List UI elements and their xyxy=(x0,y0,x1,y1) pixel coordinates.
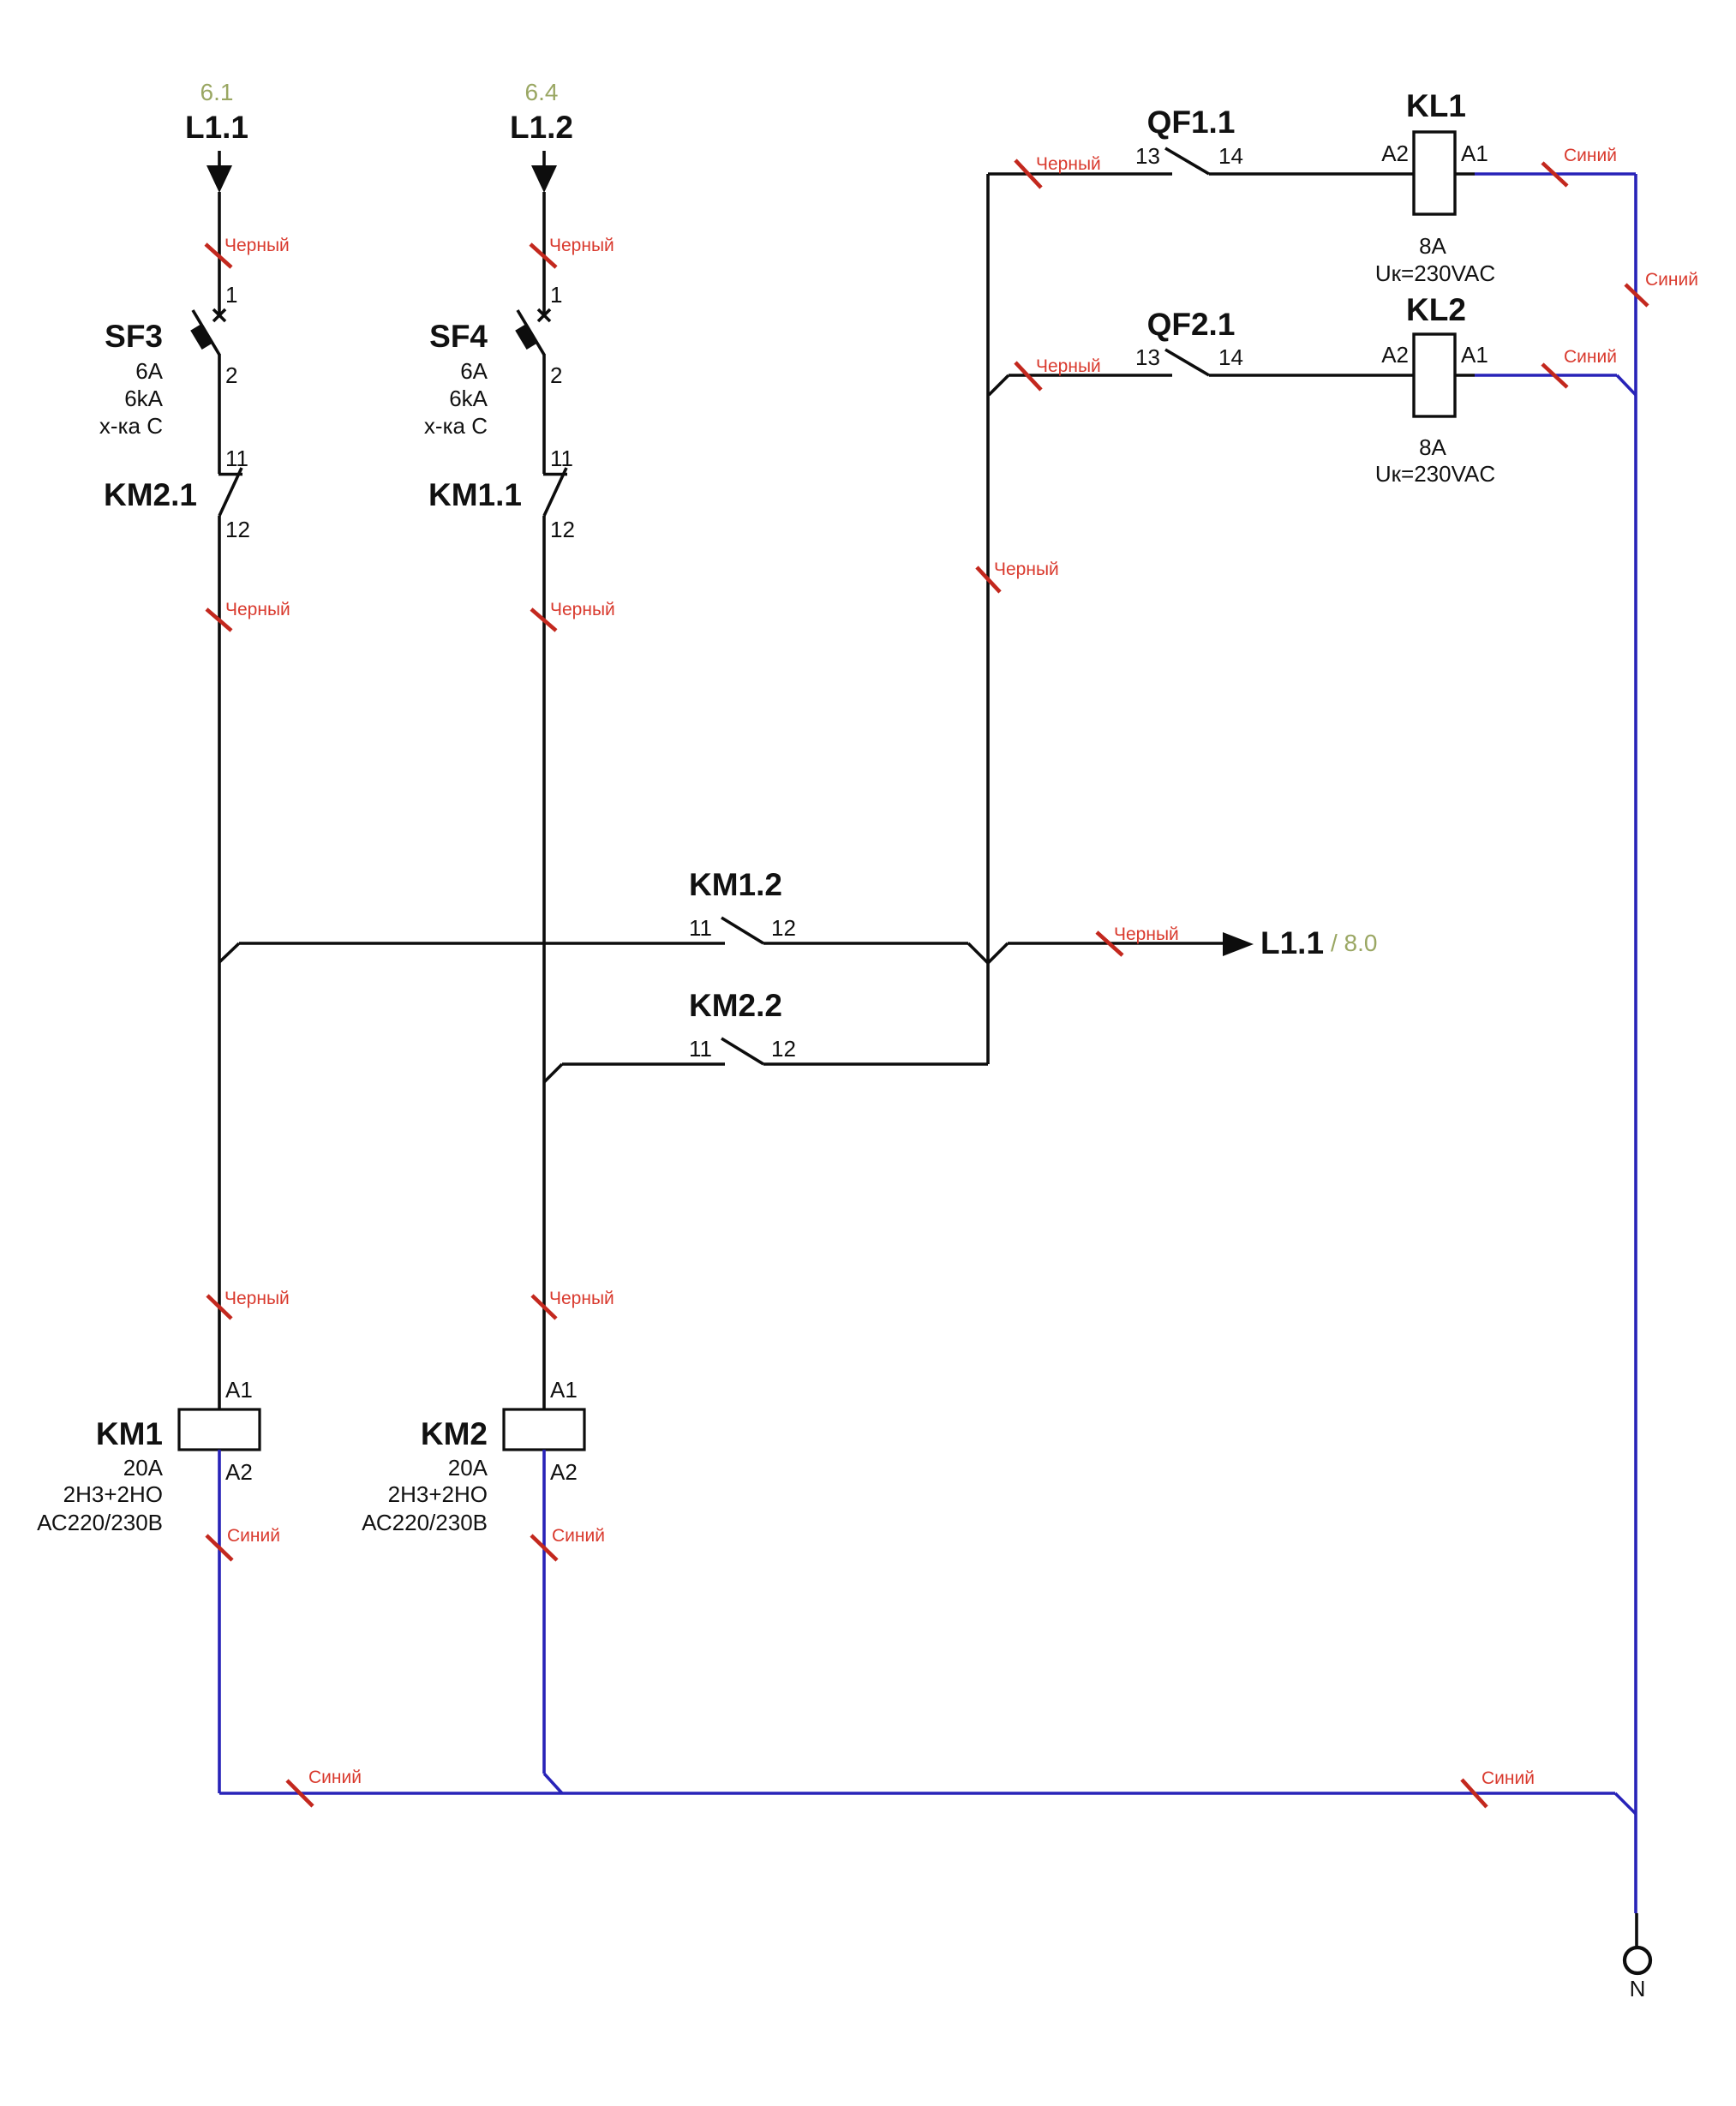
wire QF2.1 to KL2 xyxy=(1209,374,1414,377)
wire color slash (riser) xyxy=(977,567,1000,592)
svg-text:11: 11 xyxy=(689,915,712,941)
blue wire KM2 join diagonal xyxy=(544,1774,562,1793)
relay coil KL2 xyxy=(1414,334,1455,416)
blue wire KL2 join diagonal xyxy=(1617,375,1636,395)
wire color slash (above KM2) xyxy=(532,1295,556,1319)
svg-text:KM2.2: KM2.2 xyxy=(689,988,782,1023)
wire color slash (below KM1.1) xyxy=(531,609,556,631)
svg-text:KM1: KM1 xyxy=(96,1416,163,1451)
svg-text:1: 1 xyxy=(225,282,237,308)
junction V jog at black riser xyxy=(968,943,1008,963)
svg-text:L1.2: L1.2 xyxy=(510,110,573,145)
svg-text:2Н3+2НО: 2Н3+2НО xyxy=(388,1481,488,1507)
wire KM1.1 to KM2 coil xyxy=(542,516,546,1409)
svg-text:АС220/230В: АС220/230В xyxy=(37,1510,163,1535)
svg-text:L1.1: L1.1 xyxy=(185,110,248,145)
NO contact QF1.1 blade xyxy=(1165,148,1209,174)
terminal N circle xyxy=(1625,1947,1650,1973)
breaker SF3 terminal x mark xyxy=(213,309,225,321)
wire color slash (L1.2 top) xyxy=(530,244,556,267)
svg-text:L1.1: L1.1 xyxy=(1260,925,1324,960)
svg-text:A2: A2 xyxy=(225,1459,253,1485)
junction jog L1.2 branch to KM2.2 rung xyxy=(544,1064,562,1082)
svg-text:KM2: KM2 xyxy=(421,1416,488,1451)
svg-text:KM2.1: KM2.1 xyxy=(104,477,197,512)
svg-text:Черный: Черный xyxy=(994,559,1059,579)
svg-text:6А: 6А xyxy=(135,358,163,384)
blue wire KM2 to N bus xyxy=(542,1450,546,1774)
wire color slash (bottom bus left) xyxy=(287,1780,313,1806)
svg-text:6.1: 6.1 xyxy=(201,79,234,105)
svg-text:х-ка С: х-ка С xyxy=(424,413,488,439)
svg-text:Черный: Черный xyxy=(550,600,615,619)
breaker SF3 blade xyxy=(193,310,219,355)
svg-text:Черный: Черный xyxy=(549,236,614,255)
svg-text:12: 12 xyxy=(550,517,575,542)
svg-text:SF4: SF4 xyxy=(429,319,488,354)
svg-text:A2: A2 xyxy=(1381,342,1409,368)
svg-text:6А: 6А xyxy=(460,358,488,384)
svg-text:Черный: Черный xyxy=(1114,924,1179,944)
NC contact KM1.1 xyxy=(543,468,567,516)
relay coil KL1 xyxy=(1414,132,1455,214)
svg-text:8А: 8А xyxy=(1419,434,1446,460)
wire to outgoing node L1.1 xyxy=(1008,942,1224,945)
svg-text:A1: A1 xyxy=(1461,141,1488,166)
svg-text:KM1.2: KM1.2 xyxy=(689,867,782,902)
svg-text:20А: 20А xyxy=(123,1455,164,1481)
breaker SF4 release box xyxy=(515,325,536,350)
blue wire KL2 row xyxy=(1475,374,1617,377)
svg-text:6kA: 6kA xyxy=(449,386,488,411)
black stub to N terminal xyxy=(1635,1913,1638,1947)
svg-text:11: 11 xyxy=(689,1036,712,1062)
NO contact KM1.2 blade xyxy=(721,918,763,943)
svg-text:6.4: 6.4 xyxy=(525,79,559,105)
wire color slash (right bus) xyxy=(1625,284,1648,306)
svg-text:2: 2 xyxy=(550,362,562,388)
wire color slash (KL1 row) xyxy=(1542,163,1567,186)
breaker SF4 terminal x mark xyxy=(538,309,550,321)
svg-text:11: 11 xyxy=(550,446,573,471)
svg-text:6kA: 6kA xyxy=(124,386,163,411)
wire SF4 to KM1.1 xyxy=(542,354,546,474)
wire color slash (L1.1 top) xyxy=(206,244,231,267)
wire color slash (KL2 row) xyxy=(1542,364,1567,387)
terminal arrow L1.2 xyxy=(531,151,557,193)
svg-text:2Н3+2НО: 2Н3+2НО xyxy=(63,1481,163,1507)
blue right bus vertical xyxy=(1634,174,1637,1913)
wire color slash (above KM1) xyxy=(207,1295,231,1319)
svg-text:A1: A1 xyxy=(550,1377,578,1403)
wire riser jog to QF2.1 row xyxy=(989,375,1009,395)
svg-text:SF3: SF3 xyxy=(105,319,163,354)
black stub KL2 to blue wire xyxy=(1455,374,1475,377)
svg-text:A1: A1 xyxy=(225,1377,253,1403)
svg-text:АС220/230В: АС220/230В xyxy=(362,1510,488,1535)
svg-text:х-ка С: х-ка С xyxy=(99,413,163,439)
blue wire KM1 to N bus xyxy=(218,1450,221,1793)
wire color slash (bottom bus right) xyxy=(1462,1780,1487,1807)
svg-text:13: 13 xyxy=(1135,344,1160,370)
svg-text:A2: A2 xyxy=(550,1459,578,1485)
svg-text:Синий: Синий xyxy=(308,1768,362,1787)
contactor coil KM1 xyxy=(179,1409,260,1450)
svg-text:Черный: Черный xyxy=(1036,154,1101,174)
black riser wire xyxy=(986,174,990,1064)
svg-text:Uк=230VAC: Uк=230VAC xyxy=(1375,260,1495,286)
svg-text:Синий: Синий xyxy=(1482,1768,1535,1788)
svg-text:12: 12 xyxy=(771,915,796,941)
wire riser to QF1.1 xyxy=(988,172,1172,176)
wire color slash (outgoing) xyxy=(1097,932,1122,955)
black stub KL1 to blue wire xyxy=(1455,172,1475,176)
svg-text:QF2.1: QF2.1 xyxy=(1147,307,1236,342)
outgoing arrow xyxy=(1223,932,1254,956)
svg-text:A2: A2 xyxy=(1381,141,1409,166)
svg-text:Синий: Синий xyxy=(552,1526,605,1546)
svg-text:/ 8.0: / 8.0 xyxy=(1331,930,1377,956)
svg-text:KL2: KL2 xyxy=(1406,292,1466,327)
svg-text:12: 12 xyxy=(771,1036,796,1062)
wire KM2.2 rung left xyxy=(562,1062,725,1066)
terminal arrow L1.1 xyxy=(207,151,232,193)
contactor coil KM2 xyxy=(504,1409,584,1450)
junction jog L1.1 branch to KM1.2 rung xyxy=(219,943,239,962)
wire KM2.2 rung right xyxy=(763,1062,988,1066)
wire SF3 to KM2.1 xyxy=(218,354,221,474)
svg-text:14: 14 xyxy=(1218,143,1243,169)
svg-text:Синий: Синий xyxy=(227,1526,280,1546)
svg-text:2: 2 xyxy=(225,362,237,388)
svg-text:Синий: Синий xyxy=(1564,146,1617,165)
svg-text:KL1: KL1 xyxy=(1406,88,1466,123)
blue bottom bus xyxy=(219,1792,1615,1795)
svg-text:Черный: Черный xyxy=(1036,356,1101,376)
svg-text:8А: 8А xyxy=(1419,233,1446,259)
svg-text:A1: A1 xyxy=(1461,342,1488,368)
svg-text:N: N xyxy=(1630,1976,1646,2001)
wire QF1.1 to KL1 xyxy=(1209,172,1414,176)
svg-text:Черный: Черный xyxy=(225,600,290,619)
svg-text:KM1.1: KM1.1 xyxy=(428,477,522,512)
wire KM1.2 rung right xyxy=(763,942,968,945)
NO contact KM2.2 blade xyxy=(721,1038,763,1064)
svg-text:1: 1 xyxy=(550,282,562,308)
wire color slash (QF1.1 row) xyxy=(1015,160,1041,188)
svg-text:QF1.1: QF1.1 xyxy=(1147,105,1236,140)
svg-text:Синий: Синий xyxy=(1564,347,1617,367)
NO contact QF2.1 blade xyxy=(1165,350,1209,375)
wire KM1.2 rung left xyxy=(239,942,725,945)
svg-text:Черный: Черный xyxy=(549,1289,614,1308)
svg-text:14: 14 xyxy=(1218,344,1243,370)
svg-text:12: 12 xyxy=(225,517,250,542)
svg-text:Черный: Черный xyxy=(224,236,290,255)
wire color slash (below KM2) xyxy=(531,1535,557,1560)
wire color slash (QF2.1 row) xyxy=(1015,362,1041,390)
svg-text:Uк=230VAC: Uк=230VAC xyxy=(1375,461,1495,487)
breaker SF4 blade xyxy=(518,310,544,355)
svg-text:Черный: Черный xyxy=(224,1289,290,1308)
wire KM2.1 to KM1 coil xyxy=(218,516,221,1409)
wire color slash (below KM1) xyxy=(207,1535,232,1560)
NC contact KM2.1 xyxy=(218,468,242,516)
breaker SF3 release box xyxy=(190,325,212,350)
svg-text:11: 11 xyxy=(225,446,248,471)
blue wire KL1 to right bus xyxy=(1475,172,1636,176)
svg-text:Синий: Синий xyxy=(1645,270,1698,290)
wire L1.1 to SF3 xyxy=(218,192,221,317)
svg-text:20А: 20А xyxy=(448,1455,488,1481)
blue bottom bus join diagonal to right bus xyxy=(1615,1793,1636,1814)
wire riser to QF2.1 xyxy=(1009,374,1172,377)
wire L1.2 to SF4 xyxy=(542,192,546,317)
wire color slash (below KM2.1) xyxy=(207,609,231,631)
svg-text:13: 13 xyxy=(1135,143,1160,169)
